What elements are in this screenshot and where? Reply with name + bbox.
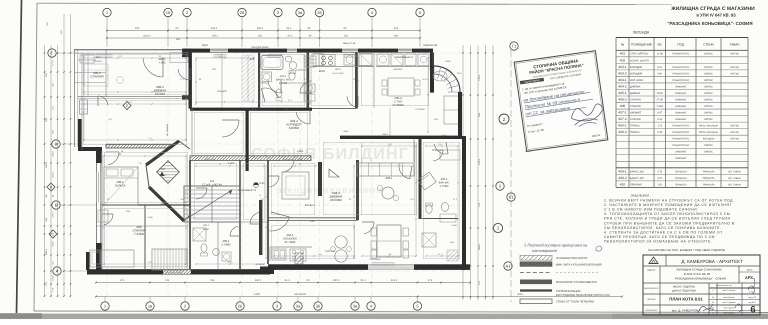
svg-text:3а: 3а (298, 10, 303, 15)
svg-text:406-1: 406-1 (441, 178, 448, 181)
svg-text:109.5: 109.5 (257, 27, 264, 30)
svg-text:2613: 2613 (517, 293, 523, 296)
svg-text:Д. КАМБУРОВА - АРХИТЕКТ: Д. КАМБУРОВА - АРХИТЕКТ (681, 259, 742, 264)
svg-text:ФАСАДНА: ФАСАДНА (703, 138, 715, 141)
svg-text:Пч: Пч (712, 301, 714, 304)
svg-text:170: 170 (478, 202, 481, 207)
svg-text:кв. спалня: кв. спалня (166, 124, 169, 136)
svg-text:200.5: 200.5 (52, 151, 55, 157)
svg-text:ТЕРАСА: ТЕРАСА (630, 131, 640, 134)
svg-text:163.5: 163.5 (52, 172, 55, 178)
svg-text:ПОД: ПОД (677, 43, 685, 47)
svg-text:404-2: 404-2 (618, 84, 627, 88)
svg-text:БАНЯ С WC: БАНЯ С WC (630, 177, 644, 180)
svg-text:САМИТЕ ПРОЗОРЦИ, КАТО СЕ ПРЕДВ: САМИТЕ ПРОЗОРЦИ, КАТО СЕ ПРЕДВИЖДА ПО 3 … (604, 235, 715, 239)
svg-text:ТЕРАСА: ТЕРАСА (94, 60, 103, 63)
svg-text:Б1: Б1 (509, 194, 515, 199)
svg-text:ЛАТЕКС: ЛАТЕКС (704, 118, 713, 121)
svg-text:1: 1 (52, 232, 54, 236)
svg-text:403-1: 403-1 (618, 65, 627, 69)
svg-text:36: 36 (317, 10, 322, 15)
svg-text:38/93: 38/93 (309, 204, 315, 207)
svg-text:2.78: 2.78 (657, 170, 662, 173)
svg-text:име С.Рилски: име С.Рилски (723, 289, 736, 292)
svg-text:ГРАНИТОГРЕС: ГРАНИТОГРЕС (672, 79, 689, 82)
svg-text:гл: гл (712, 313, 714, 315)
svg-text:365: 365 (258, 35, 263, 38)
svg-text:ЛАТЕКС: ЛАТЕКС (730, 53, 739, 56)
svg-text:310: 310 (45, 72, 48, 77)
svg-text:КОРИДОР: КОРИДОР (630, 66, 642, 69)
svg-text:6: 6 (750, 305, 755, 316)
svg-text:7.34О: 7.34О (656, 105, 663, 108)
svg-text:94.1: 94.1 (286, 27, 292, 30)
svg-text:8М92: 8М92 (319, 70, 326, 73)
svg-text:ЛАТЕКС: ЛАТЕКС (730, 66, 739, 69)
svg-text:2.34О: 2.34О (228, 162, 235, 165)
svg-text:363.5: 363.5 (422, 78, 428, 81)
svg-text:163.5: 163.5 (45, 161, 48, 168)
svg-text:405-2: 405-2 (618, 97, 627, 101)
svg-text:ВЪЗЛОЖИТЕЛ:: ВЪЗЛОЖИТЕЛ: (644, 287, 659, 290)
svg-text:ЛАТЕКС: ЛАТЕКС (704, 85, 713, 88)
svg-text:Апартамент 3: Апартамент 3 (238, 188, 256, 192)
svg-text:БАНЯ: БАНЯ (203, 228, 209, 231)
svg-text:ТЕРАКОТА: ТЕРАКОТА (703, 183, 715, 186)
svg-text:405-1: 405-1 (618, 91, 627, 95)
svg-text:138: 138 (45, 217, 48, 222)
svg-text:91.3: 91.3 (284, 279, 290, 282)
svg-text:М2: М2 (658, 43, 663, 47)
svg-text:КОРИДОР: КОРИДОР (630, 72, 642, 75)
svg-text:1.70М2: 1.70М2 (440, 185, 449, 188)
svg-text:БАН WC: БАН WC (439, 182, 450, 185)
svg-text:21.79М2: 21.79М2 (285, 240, 296, 244)
svg-text:ПРОЗ. ФАСАДНА: ПРОЗ. ФАСАДНА (699, 131, 718, 134)
svg-text:ГРАНИТОГРЕС: ГРАНИТОГРЕС (672, 72, 689, 75)
svg-text:ПЕРАЛНЯ: ПЕРАЛНЯ (630, 183, 642, 186)
svg-text:Пв: Пв (712, 296, 714, 299)
svg-text:ГРАНИТОГРЕС: ГРАНИТОГРЕС (672, 144, 689, 147)
svg-text:ДНЕВНА: ДНЕВНА (630, 85, 641, 88)
svg-text:ТЕРАКОТА: ТЕРАКОТА (703, 177, 715, 180)
svg-text:113: 113 (478, 280, 481, 284)
svg-text:ЛАТЕКС: ЛАТЕКС (704, 53, 713, 56)
svg-text:539.5: 539.5 (212, 35, 219, 38)
svg-text:1.70: 1.70 (657, 125, 662, 128)
svg-text:СТЪЛБ. КЛЕТКА: СТЪЛБ. КЛЕТКА (202, 184, 222, 187)
svg-text:94.5: 94.5 (288, 35, 293, 38)
svg-text:ВАСИЛ ТОДОРОВ: ВАСИЛ ТОДОРОВ (673, 286, 695, 289)
svg-text:ЛМ25: ЛМ25 (445, 60, 451, 63)
svg-text:2: 2 (503, 117, 506, 122)
svg-text:ЛАТЕКС: ЛАТЕКС (730, 125, 739, 128)
svg-text:91.3: 91.3 (360, 279, 366, 282)
svg-text:1177: 1177 (60, 29, 63, 34)
svg-text:409-1: 409-1 (203, 224, 210, 227)
svg-text:363.5: 363.5 (478, 243, 481, 250)
svg-text:ОБЩ +0.28: ОБЩ +0.28 (343, 42, 356, 45)
svg-text:ЛАТЕКС: ЛАТЕКС (704, 112, 713, 115)
svg-text:27.85М2: 27.85М2 (392, 103, 404, 107)
svg-text:"РАЗСАДНИКА КОНЬОВИЦА" - СО: "РАЗСАДНИКА КОНЬОВИЦА" - СОФИЯ (674, 277, 726, 281)
svg-text:СМ4 Е: СМ4 Е (382, 133, 389, 136)
svg-text:140.5: 140.5 (255, 279, 262, 282)
svg-text:9.80М2: 9.80М2 (289, 126, 300, 130)
svg-text:СМ ПЕНОПОЛИСТИРОЛ, КАТО СЕ ПО: СМ ПЕНОПОЛИСТИРОЛ, КАТО СЕ ПОКРИВА КОЛОН… (604, 226, 721, 230)
svg-text:ЛАМИНАТ: ЛАМИНАТ (675, 112, 687, 115)
svg-text:ВЛ. ТАВАН: ВЛ. ТАВАН (728, 183, 741, 186)
svg-text:300: 300 (176, 38, 181, 41)
svg-text:СТРОЕЖ ПРИ ВЪНШНИТЕ ДА СЕ ЗАЛ: СТРОЕЖ ПРИ ВЪНШНИТЕ ДА СЕ ЗАЛОЖИ ПРЕДВАР… (604, 221, 735, 225)
svg-text:175: 175 (120, 279, 125, 282)
svg-text:ГРАНИТОГРЕС: ГРАНИТОГРЕС (672, 66, 689, 69)
svg-text:ГРАНИТОГРЕС: ГРАНИТОГРЕС (672, 138, 689, 141)
svg-text:1.34О: 1.34О (309, 220, 315, 223)
svg-text:363.5: 363.5 (52, 241, 55, 247)
svg-text:8.91: 8.91 (259, 182, 265, 185)
svg-text:363.5: 363.5 (227, 261, 233, 264)
svg-text:7.34М2: 7.34М2 (134, 232, 145, 236)
svg-text:404-1: 404-1 (618, 78, 627, 82)
svg-text:ЗОВ: ЗОВ (126, 210, 131, 213)
svg-text:26: 26 (238, 303, 243, 308)
svg-text:СПАЛНЯ: СПАЛНЯ (630, 118, 641, 121)
svg-text:ЛАМИНАТ: ЛАМИНАТ (675, 151, 687, 154)
svg-text:ГАРД: ГАРД (148, 216, 153, 219)
svg-text:300: 300 (135, 27, 140, 30)
svg-text:794: 794 (210, 279, 215, 282)
svg-text:190.5: 190.5 (333, 279, 340, 282)
svg-text:ПРИ СТЕ. КОЛОНИ И ГРЕДИ ДА СЕ: ПРИ СТЕ. КОЛОНИ И ГРЕДИ ДА СЕ ИЗПЪЛНИ СЛ… (604, 217, 730, 221)
svg-text:ЛАМИНАТ: ЛАМИНАТ (675, 98, 687, 101)
svg-text:СТОЛ. КЛЕТКИ: СТОЛ. КЛЕТКИ (630, 53, 648, 56)
svg-text:27.85: 27.85 (657, 98, 664, 101)
svg-text:натоварване: натоварване (532, 248, 558, 253)
svg-text:224: 224 (394, 27, 399, 30)
svg-text:736: 736 (165, 279, 170, 282)
svg-text:408-1: 408-1 (618, 124, 627, 128)
svg-text:Г1: Г1 (512, 43, 517, 48)
svg-text:70/14: 70/14 (441, 134, 447, 137)
svg-text:ДЗЛ45/28: ДЗЛ45/28 (256, 263, 266, 266)
svg-text:ЛАТЕКС: ЛАТЕКС (730, 138, 739, 141)
svg-text:ЛАМИНАТ: ЛАМИНАТ (675, 105, 687, 108)
svg-text:"РАЗСАДНИКА КОНЬОВИЦА"- СОФИЯ: "РАЗСАДНИКА КОНЬОВИЦА"- СОФИЯ (667, 21, 752, 26)
svg-text:403-1: 403-1 (385, 176, 393, 180)
svg-text:КУХН. БОКС: КУХН. БОКС (332, 72, 344, 75)
svg-text:ТЕРАКОТА: ТЕРАКОТА (675, 170, 688, 173)
svg-text:ЛАТЕКС: ЛАТЕКС (704, 98, 713, 101)
svg-text:312.5: 312.5 (478, 158, 481, 165)
svg-text:ПЛАН КОТА 8.91: ПЛАН КОТА 8.91 (669, 297, 703, 302)
svg-text:ТЕРАКОТА: ТЕРАКОТА (703, 170, 715, 173)
svg-text:ПОМЕЩЕНИЕ: ПОМЕЩЕНИЕ (631, 43, 652, 47)
svg-text:ЛАТЕКС: ЛАТЕКС (704, 144, 713, 147)
svg-text:9.80: 9.80 (657, 72, 662, 75)
svg-text:8М92: 8М92 (202, 44, 209, 47)
svg-text:ЛАМИНАТ: ЛАМИНАТ (675, 157, 687, 160)
svg-text:АСАНС. ШАХТА: АСАНС. ШАХТА (630, 59, 649, 62)
svg-text:261.3: 261.3 (391, 279, 398, 282)
svg-text:ГРАНИТОГРЕС: ГРАНИТОГРЕС (672, 53, 689, 56)
svg-text:КАБИНЕТ: КАБИНЕТ (630, 112, 642, 115)
svg-text:402: 402 (620, 58, 626, 62)
svg-text:СУШ.МАШ: СУШ.МАШ (370, 258, 381, 261)
svg-text:МОНОЛИТЕН СТОМАНОБЕТОН: МОНОЛИТЕН СТОМАНОБЕТОН (556, 281, 597, 284)
svg-text:ТАВАН: ТАВАН (729, 43, 739, 47)
svg-text:3.47М2: 3.47М2 (279, 82, 288, 85)
svg-text:ДНЕВНА: ДНЕВНА (630, 92, 641, 95)
svg-text:2.35: 2.35 (657, 131, 662, 134)
svg-text:2.78М2: 2.78М2 (221, 243, 231, 247)
svg-text:ЛАМИНАТ: ЛАМИНАТ (675, 118, 687, 121)
svg-text:407-1: 407-1 (618, 111, 627, 115)
svg-text:ТЕРАКОТА: ТЕРАКОТА (675, 183, 688, 186)
svg-text:ТОПЛОИЗОЛАЦИЯ: ТОПЛОИЗОЛАЦИЯ (556, 290, 580, 293)
svg-text:ЕКСТРУДИРАН ПЕНОПОЛИСТИРОЛ 5 С: ЕКСТРУДИРАН ПЕНОПОЛИСТИРОЛ 5 СМ (556, 294, 610, 297)
svg-text:7.925: 7.925 (159, 168, 166, 171)
svg-text:ОСНОВНИ ПЛОСКОСТИ: ОСНОВНИ ПЛОСКОСТИ (556, 257, 587, 260)
svg-text:ВЛ. ТАВАН: ВЛ. ТАВАН (728, 177, 741, 180)
svg-text:ДНЕВНА: ДНЕВНА (393, 68, 403, 71)
svg-text:ГРАНИТОГРЕС: ГРАНИТОГРЕС (672, 131, 689, 134)
svg-text:СПАЛНЯ: СПАЛНЯ (630, 98, 641, 101)
svg-text:ЛЕГЕНДА: ЛЕГЕНДА (633, 31, 650, 35)
svg-text:АРХ.: АРХ. (745, 275, 754, 280)
svg-text:1в: 1в (148, 303, 152, 308)
svg-text:ОБЕКТ:: ОБЕКТ: (647, 269, 656, 272)
svg-text:173.5: 173.5 (478, 74, 481, 81)
svg-text:7.925: 7.925 (159, 61, 166, 65)
svg-text:410: 410 (250, 57, 255, 61)
svg-text:СЪГЛАСУВАЛ ЗА "ЕЛС. БИЛДИНГ" О: СЪГЛАСУВАЛ ЗА "ЕЛС. БИЛДИНГ" ООД -ИВАН Т… (648, 248, 725, 252)
svg-text:5.41: 5.41 (657, 66, 662, 69)
svg-text:402: 402 (161, 202, 166, 206)
svg-text:БАНЯ С WC: БАНЯ С WC (630, 170, 644, 173)
svg-text:МИН. ВАТА 4 СМ ШУМОИЗОЛАЦИЯ: МИН. ВАТА 4 СМ ШУМОИЗОЛАЦИЯ (556, 263, 602, 266)
svg-text:ХОЛ. БОКС: ХОЛ. БОКС (630, 79, 644, 82)
svg-text:403-2: 403-2 (618, 71, 627, 75)
svg-text:име В.Данов: име В.Данов (723, 307, 734, 310)
svg-text:СПАЛНЯ: СПАЛНЯ (90, 75, 103, 79)
svg-text:409-1: 409-1 (618, 169, 627, 173)
svg-text:28.50М2: 28.50М2 (330, 198, 342, 202)
svg-text:н: н (712, 289, 713, 292)
svg-text:36: 36 (316, 303, 321, 308)
svg-text:фаза: фаза (747, 269, 753, 272)
svg-text:401: 401 (620, 52, 626, 56)
svg-text:11.88: 11.88 (657, 53, 664, 56)
svg-text:СТЕНИ: СТЕНИ (703, 43, 714, 47)
svg-text:ЛАТЕКС: ЛАТЕКС (704, 66, 713, 69)
svg-text:1. ВСИЧКИ ВЕРТ РАЗМЕРИ НА СТРО: 1. ВСИЧКИ ВЕРТ РАЗМЕРИ НА СТРОЕЖЪТ СА ОТ… (604, 199, 734, 203)
svg-text:ЛАТЕКС: ЛАТЕКС (704, 79, 713, 82)
svg-text:3. ТОПЛОИЗОЛАЦИЯТА ОТ БИСЕР ПЕ: 3. ТОПЛОИЗОЛАЦИЯТА ОТ БИСЕР ПЕНОПОЛИСТИР… (604, 212, 730, 216)
svg-text:26: 26 (240, 10, 245, 15)
svg-text:408-2: 408-2 (95, 56, 102, 59)
svg-text:409-2: 409-2 (618, 176, 627, 180)
svg-text:23.94О: 23.94О (155, 92, 166, 96)
svg-text:255: 255 (478, 112, 481, 117)
svg-text:1.34О: 1.34О (451, 224, 457, 227)
svg-text:428.45/28: 428.45/28 (294, 293, 306, 296)
svg-text:8.16: 8.16 (657, 118, 662, 121)
svg-text:3.47: 3.47 (657, 177, 662, 180)
svg-text:ЛАТЕКС: ЛАТЕКС (730, 72, 739, 75)
svg-text:арх. Д. КАМБУРОВА: арх. Д. КАМБУРОВА (672, 309, 700, 313)
svg-text:9.57: 9.57 (657, 112, 662, 115)
svg-text:4. СТЕПЕНТА ЗА ДОСТИГАНЕ СА С: 4. СТЕПЕНТА ЗА ДОСТИГАНЕ СА С 6 СМ ПО ГО… (604, 230, 723, 234)
svg-text:ПРОЗ. ФАСАДНА: ПРОЗ. ФАСАДНА (699, 125, 718, 128)
svg-text:156.5: 156.5 (251, 108, 257, 111)
svg-text:177.5: 177.5 (52, 60, 55, 66)
svg-text:ТЕРАСА: ТЕРАСА (115, 184, 126, 188)
svg-text:1.34О: 1.34О (297, 150, 304, 153)
svg-text:173: 173 (428, 279, 433, 282)
svg-text:ПРОЕКТАНТ:: ПРОЕКТАНТ: (645, 309, 658, 312)
svg-text:407-2: 407-2 (618, 117, 627, 121)
svg-text:СТЛ25/4В: СТЛ25/4В (415, 108, 425, 111)
svg-text:2. НАСТИЛКИТЕ В МОКРИТЕ ПОМЕЩЕ: 2. НАСТИЛКИТЕ В МОКРИТЕ ПОМЕЩЕНИЯ ДА СЕ … (604, 203, 732, 207)
svg-text:БАНЯ С WC: БАНЯ С WC (276, 79, 290, 82)
svg-text:В УПИ IV 647 КВ. 83: В УПИ IV 647 КВ. 83 (684, 272, 711, 276)
svg-text:ЛАТЕКС: ЛАТЕКС (704, 92, 713, 95)
svg-text:Апартамент 2: Апартамент 2 (395, 55, 413, 59)
svg-text:каф 4.92: каф 4.92 (748, 296, 756, 299)
svg-text:ВЛ. ТАВАН: ВЛ. ТАВАН (728, 170, 741, 173)
svg-text:ЛАТЕКС: ЛАТЕКС (730, 131, 739, 134)
svg-text:име В.Банов: име В.Банов (723, 296, 734, 299)
svg-text:1.50: 1.50 (657, 183, 662, 186)
svg-text:239.5: 239.5 (52, 212, 55, 218)
svg-text:526: 526 (344, 35, 349, 38)
svg-text:СТЕНА ОТ ТУХЛИ ЧЕТВОРКИ: СТЕНА ОТ ТУХЛИ ЧЕТВОРКИ (556, 301, 594, 304)
svg-text:Проектантски кол.: Проектантски кол. (716, 284, 732, 287)
svg-text:ЛАТЕКС: ЛАТЕКС (704, 151, 713, 154)
svg-text:28.50: 28.50 (657, 92, 664, 95)
svg-text:2: 2 (126, 104, 128, 108)
svg-text:486: 486 (394, 35, 399, 38)
svg-text:в УПИ IV 647 КВ. 83: в УПИ IV 647 КВ. 83 (696, 13, 736, 18)
svg-text:ПЕНОПОЛИСТИРОЛ ЗА ИЗМАЗВАНЕ: ПЕНОПОЛИСТИРОЛ ЗА ИЗМАЗВАНЕ НА ОТКОСИТЕ. (604, 239, 712, 243)
svg-text:6263.5: 6263.5 (143, 35, 151, 38)
svg-text:ЗАБЕЛЕЖКИ: ЗАБЕЛЕЖКИ (631, 194, 649, 198)
svg-text:1400: 1400 (254, 293, 260, 296)
svg-text:7К/18: 7К/18 (456, 72, 462, 75)
svg-text:401: 401 (210, 180, 215, 183)
svg-text:131.5: 131.5 (52, 275, 55, 281)
svg-text:406: 406 (620, 104, 626, 108)
svg-text:16: 16 (166, 10, 171, 15)
svg-text:ЛАТЕКС: ЛАТЕКС (704, 72, 713, 75)
svg-text:1700+ТЬГ: 1700+ТЬГ (324, 250, 336, 253)
svg-text:113: 113 (45, 281, 48, 285)
svg-text:3в: 3в (353, 303, 357, 308)
svg-text:ПВЦ ДОГРАМА: ПВЦ ДОГРАМА (251, 46, 269, 49)
svg-text:П2ВИН25/4В: П2ВИН25/4В (423, 44, 438, 47)
svg-text:ЧЕРТЕЖ:: ЧЕРТЕЖ: (647, 298, 656, 301)
svg-text:404-1: 404-1 (335, 68, 342, 71)
svg-text:335: 335 (45, 117, 48, 122)
svg-text:241.5: 241.5 (211, 27, 218, 30)
svg-text:5 Перпендикулярна армировка: 5 Перпендикулярна армировка на (524, 243, 588, 248)
svg-text:КОРИДОР: КОРИДОР (217, 90, 228, 93)
svg-text:агенция недвижими: агенция недвижими (277, 185, 383, 195)
svg-text:8М92: 8М92 (343, 130, 349, 133)
svg-text:ГРАНИТОГРЕС: ГРАНИТОГРЕС (672, 125, 689, 128)
svg-text:С 1 В СМ НИВОТО ИЗМ ПОДОВИТЕ С: С 1 В СМ НИВОТО ИЗМ ПОДОВИТЕ СИФОНИ. (604, 208, 699, 212)
svg-text:ДИАНА ТОДОРОВА: ДИАНА ТОДОРОВА (672, 290, 696, 293)
svg-text:СПАЛНЯ: СПАЛНЯ (630, 105, 641, 108)
svg-text:363.5: 363.5 (45, 248, 48, 255)
svg-text:409-2: 409-2 (280, 75, 287, 78)
svg-text:ЛАТЕКС: ЛАТЕКС (704, 105, 713, 108)
svg-text:408-2: 408-2 (618, 130, 627, 134)
svg-text:48/93 +8.93: 48/93 +8.93 (205, 158, 217, 161)
svg-text:3а: 3а (296, 303, 301, 308)
svg-text:име В.Данов: име В.Данов (723, 312, 734, 315)
svg-text:410: 410 (620, 182, 626, 186)
svg-text:ТЕРАСА: ТЕРАСА (630, 125, 640, 128)
svg-text:име СТ.Добрев: име СТ.Добрев (722, 301, 735, 304)
svg-text:ЛАМИНАТ: ЛАМИНАТ (675, 92, 687, 95)
svg-text:ЖИЛИЩНА СГРАДА С МАГАЗИНИ: ЖИЛИЩНА СГРАДА С МАГАЗИНИ (670, 6, 755, 12)
svg-text:А1: А1 (506, 263, 512, 268)
svg-text:ЛАМИНАТ: ЛАМИНАТ (675, 85, 687, 88)
svg-text:ТЕРАКОТА: ТЕРАКОТА (675, 177, 688, 180)
